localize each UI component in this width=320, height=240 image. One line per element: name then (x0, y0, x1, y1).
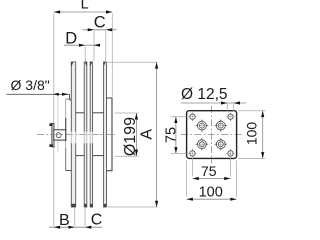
extension line x=112.3 (L right) (111, 14, 113, 97)
big hole crosshairs (195, 119, 227, 151)
svg-text:75: 75 (163, 127, 179, 143)
big hole edge ticks (196, 120, 226, 150)
svg-text:Ø199: Ø199 (122, 117, 139, 156)
disc 1 (71, 62, 75, 207)
extension line x=85.2 (D left) (84, 47, 86, 62)
extension line x=105.8 (C right) (105, 31, 107, 61)
hub circle (set screw) (56, 133, 61, 138)
extension line x=94 (D right / C left) (93, 31, 95, 61)
dimension D (64, 44, 100, 46)
svg-text:C: C (91, 212, 103, 229)
top extension for A (106, 61, 158, 63)
bore band (discs faded at center) (71, 132, 94, 144)
svg-text:100: 100 (244, 122, 260, 146)
svg-text:75: 75 (201, 163, 217, 179)
dimension Ø199 (135, 113, 137, 156)
svg-text:L: L (81, 0, 89, 13)
valley extension for Ø199 top (115, 112, 139, 114)
valley extension for Ø199 bottom (115, 155, 139, 157)
right body block (107, 98, 113, 171)
extension x=74.7 (disc1 right, B/C) (74, 208, 76, 226)
dimension B / C bottom line (49, 226, 102, 228)
big holes 2x2 (198, 121, 226, 148)
hub block (54, 130, 66, 140)
svg-text:Ø 3/8": Ø 3/8" (11, 77, 50, 93)
groove valley bottom right (93, 155, 104, 157)
centerline (37, 134, 116, 136)
dimension L (54, 11, 113, 13)
svg-text:D: D (65, 30, 77, 48)
set screw hidden line (57, 96, 59, 130)
disc 4 (104, 62, 107, 207)
groove valley top right (93, 112, 104, 114)
left 75 dim (171, 116, 187, 118)
disc 3 (90, 62, 92, 207)
disc 2 (84, 62, 87, 207)
bottom extension for A (106, 206, 158, 208)
svg-text:C: C (94, 14, 106, 32)
corner holes Ø12.5 (190, 114, 233, 156)
corner hole crosshairs (188, 112, 235, 157)
extension x=85 (C right bottom) (84, 208, 86, 226)
groove valley top left (76, 112, 85, 114)
svg-text:A: A (139, 129, 156, 140)
svg-text:Ø 12,5: Ø 12,5 (181, 86, 228, 103)
plate center lines (181, 134, 242, 136)
left barrel face (66, 98, 72, 100)
right 100 dim (238, 110, 266, 112)
svg-text:100: 100 (199, 185, 223, 201)
corner hole notches (192, 119, 232, 151)
extension line x=53.8 (hub flange face, for L and B) (53, 14, 55, 123)
svg-text:B: B (59, 212, 70, 229)
bottom 75 dim (192, 158, 194, 177)
groove valley bottom left (76, 155, 85, 157)
bottom 100 dim (186, 160, 188, 197)
hub flange (52, 123, 54, 147)
dimension C (top) (83, 29, 117, 31)
plate (187, 111, 237, 159)
dimension A (156, 62, 158, 207)
